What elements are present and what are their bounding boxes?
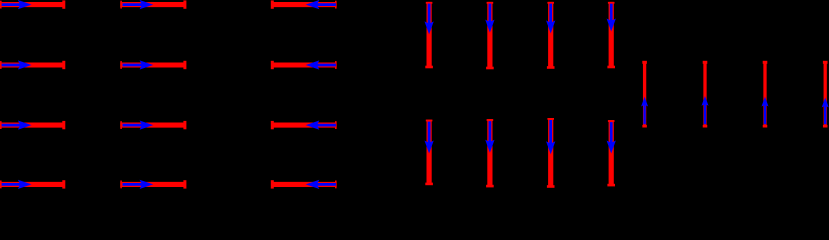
blue field arrow C c4: [822, 98, 829, 125]
blue field arrow A r3c3: [306, 120, 336, 129]
blue field arrow C c2: [702, 96, 709, 124]
blue field arrow C c3: [762, 97, 769, 125]
blue field arrow A r2c1: [2, 60, 32, 69]
blue field arrow C c1: [641, 97, 648, 125]
blue field arrow A r2c2: [123, 60, 154, 69]
red field arrow B bottom c3: [547, 118, 555, 188]
red field arrow A r3c3: [271, 121, 337, 129]
blue field arrow A r2c3: [306, 60, 336, 69]
red field arrow C c2: [703, 61, 708, 128]
blue field arrow B bottom c4: [607, 122, 616, 153]
red field arrow A r4c2: [120, 180, 186, 188]
red field arrow A r1c1: [0, 0, 65, 8]
blue field arrow A r1c3: [306, 0, 336, 9]
blue field arrow A r1c1: [2, 0, 32, 9]
red field arrow B bottom c2: [486, 119, 494, 187]
blue field arrow A r3c1: [2, 120, 32, 129]
blue field arrow A r4c2: [123, 180, 154, 189]
blue field arrow B bottom c1: [424, 122, 433, 154]
red field arrow A r3c1: [0, 121, 65, 129]
blue field arrow B top c1: [424, 4, 433, 35]
red field arrow C c4: [823, 61, 828, 128]
red field arrow A r4c1: [0, 180, 65, 188]
red field arrow B top c1: [425, 2, 433, 68]
red field arrow A r2c2: [120, 61, 186, 69]
blue field arrow B bottom c2: [485, 121, 494, 153]
red field arrow A r1c3: [271, 0, 337, 8]
blue field arrow A r1c2: [123, 0, 154, 9]
vector field plot background: [0, 0, 829, 190]
red field arrow A r1c2: [120, 0, 186, 8]
blue field arrow A r3c2: [123, 120, 154, 129]
blue field arrow A r4c1: [2, 180, 32, 189]
red field arrow A r2c1: [0, 61, 65, 69]
blue field arrow B bottom c3: [546, 120, 555, 154]
red field arrow C c1: [642, 61, 647, 128]
red field arrow A r2c3: [271, 61, 337, 69]
blue field arrow B top c3: [546, 4, 555, 34]
red field arrow B top c2: [486, 2, 494, 69]
red field arrow A r3c2: [120, 121, 186, 129]
blue field arrow B top c4: [607, 4, 616, 32]
red field arrow B bottom c4: [607, 120, 615, 186]
red field arrow B top c4: [607, 2, 615, 68]
red field arrow B bottom c1: [425, 120, 433, 186]
red field arrow C c3: [763, 61, 768, 128]
blue field arrow A r4c3: [306, 180, 336, 189]
blue field arrow B top c2: [485, 4, 494, 33]
red field arrow A r4c3: [271, 180, 337, 188]
red field arrow B top c3: [547, 2, 555, 69]
